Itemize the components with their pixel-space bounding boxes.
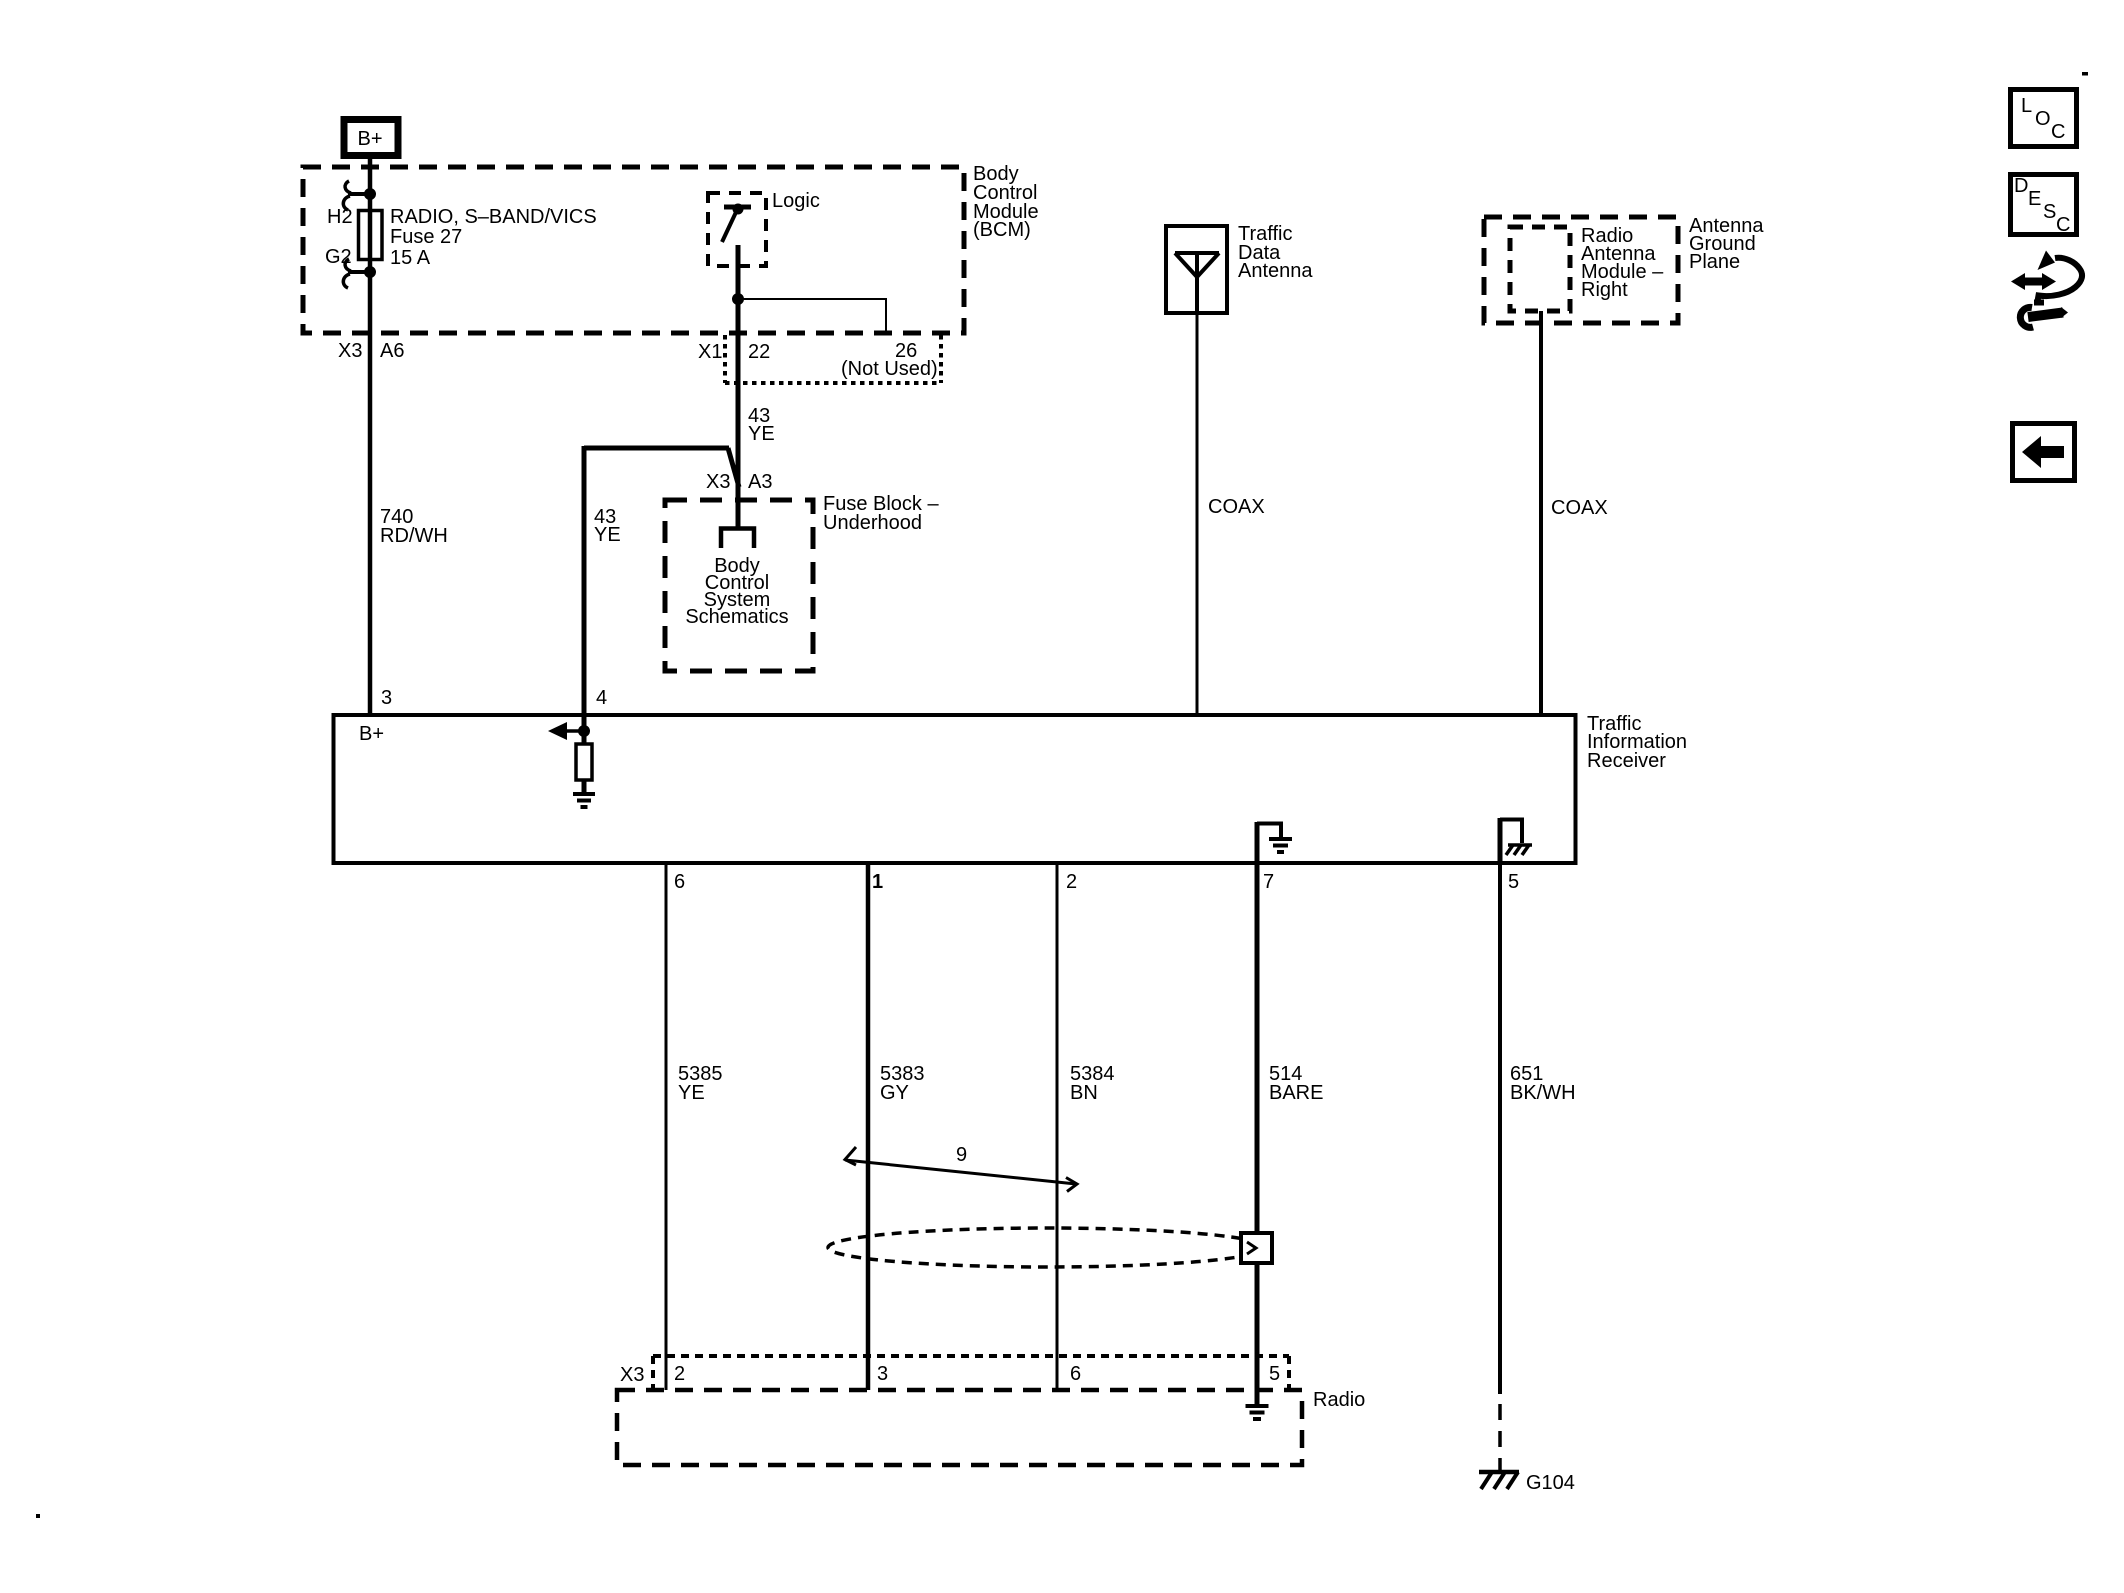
svg-text:5: 5 — [1269, 1363, 1280, 1385]
wire B+ feed — [368, 159, 373, 714]
svg-text:Antenna: Antenna — [1238, 260, 1313, 282]
shield connection arrow — [1247, 1242, 1256, 1254]
svg-text:22: 22 — [748, 341, 770, 363]
svg-text:RADIO, S–BAND/VICS: RADIO, S–BAND/VICS — [390, 206, 597, 228]
svg-text:15 A: 15 A — [390, 247, 431, 269]
svg-text:D: D — [2014, 175, 2028, 197]
wire 514 BARE — [1255, 863, 1260, 1404]
svg-text:BN: BN — [1070, 1082, 1098, 1104]
svg-text:6: 6 — [1070, 1363, 1081, 1385]
twisted pair symbol 9 — [845, 1147, 1077, 1192]
svg-text:A3: A3 — [748, 471, 772, 493]
fuse block underhood box — [665, 500, 813, 671]
svg-text:BK/WH: BK/WH — [1510, 1082, 1576, 1104]
fuse value labels — [390, 206, 597, 269]
logic switch — [722, 204, 751, 242]
svg-text:X3: X3 — [338, 340, 362, 362]
ground G104 — [1479, 1472, 1519, 1489]
connector clip H2 — [343, 181, 375, 210]
svg-text:(Not Used): (Not Used) — [841, 358, 938, 380]
svg-text:6: 6 — [674, 871, 685, 893]
wire 5385 YE — [665, 863, 668, 1390]
wire 43 YE label upper — [748, 405, 775, 445]
svg-text:E: E — [2028, 188, 2041, 210]
radio connector X3 strip — [653, 1356, 1289, 1390]
wire 651 BK/WH — [1498, 863, 1502, 1394]
svg-text:RD/WH: RD/WH — [380, 525, 448, 547]
svg-text:H2: H2 — [327, 206, 353, 228]
svg-text:4: 4 — [596, 687, 607, 709]
internal resistor — [576, 731, 592, 793]
icon swap-tool curved arrow — [2034, 251, 2082, 305]
page registration mark top right — [2082, 72, 2088, 76]
svg-text:Logic: Logic — [772, 190, 820, 212]
radio antenna module box — [1510, 227, 1570, 311]
internal ground at resistor — [573, 794, 595, 807]
shield ellipse — [828, 1228, 1266, 1267]
connector clip G2 — [343, 259, 375, 288]
svg-text:X3: X3 — [706, 471, 730, 493]
svg-text:3: 3 — [381, 687, 392, 709]
battery terminal B+ — [344, 120, 398, 156]
svg-text:L: L — [2021, 95, 2032, 117]
svg-text:9: 9 — [956, 1144, 967, 1166]
svg-text:3: 3 — [877, 1363, 888, 1385]
svg-text:2: 2 — [674, 1363, 685, 1385]
connector X1 pin box — [725, 335, 941, 383]
svg-text:BARE: BARE — [1269, 1082, 1323, 1104]
traffic data antenna box — [1166, 226, 1227, 313]
svg-text:(BCM): (BCM) — [973, 219, 1031, 241]
fuse F27 — [359, 211, 383, 260]
wire 5384 BN — [1056, 863, 1059, 1390]
svg-text:B+: B+ — [359, 723, 384, 745]
svg-text:A6: A6 — [380, 340, 404, 362]
svg-text:Right: Right — [1581, 279, 1628, 301]
svg-text:Plane: Plane — [1689, 251, 1740, 273]
traffic information receiver box — [334, 715, 1576, 863]
svg-text:GY: GY — [880, 1082, 909, 1104]
fuse block label — [823, 493, 939, 534]
svg-text:G2: G2 — [325, 246, 352, 268]
svg-text:COAX: COAX — [1551, 497, 1608, 519]
body control system schematics label — [685, 555, 788, 628]
svg-text:C: C — [2051, 121, 2065, 143]
traffic data antenna label — [1238, 223, 1313, 282]
svg-text:YE: YE — [678, 1082, 705, 1104]
receiver label — [1587, 713, 1687, 772]
BCM label — [973, 163, 1039, 241]
internal ground at pin 7 — [1257, 822, 1292, 863]
svg-text:Underhood: Underhood — [823, 512, 922, 534]
terminal bracket — [721, 529, 754, 549]
shield connection box — [1241, 1233, 1272, 1263]
svg-text:Receiver: Receiver — [1587, 750, 1666, 772]
wire 740 RD/WH labels — [380, 506, 448, 547]
BCM module outline — [303, 167, 964, 333]
coax wire antenna — [1196, 313, 1199, 714]
icon back arrow box — [2013, 424, 2075, 481]
svg-text:Radio: Radio — [1313, 1389, 1365, 1411]
antenna symbol — [1175, 253, 1219, 313]
svg-text:S: S — [2043, 201, 2056, 223]
svg-text:X3: X3 — [620, 1364, 644, 1386]
svg-text:X1: X1 — [698, 341, 722, 363]
svg-text:G104: G104 — [1526, 1472, 1575, 1494]
svg-text:Fuse 27: Fuse 27 — [390, 226, 462, 248]
svg-text:1: 1 — [872, 871, 883, 893]
internal chassis ground at pin 5 — [1500, 818, 1532, 863]
svg-text:C: C — [2056, 214, 2070, 236]
svg-text:7: 7 — [1263, 871, 1274, 893]
junction node — [733, 294, 744, 305]
svg-text:5: 5 — [1508, 871, 1519, 893]
radio antenna module label — [1581, 225, 1664, 301]
svg-text:Schematics: Schematics — [685, 606, 788, 628]
icon DESC box — [2011, 175, 2077, 237]
svg-text:B+: B+ — [357, 128, 382, 150]
wire 43 YE label lower — [594, 506, 621, 546]
wire stub to pin 26 — [738, 298, 886, 335]
coax wire module — [1539, 311, 1543, 714]
radio box — [617, 1390, 1302, 1465]
wire 43 from switch — [736, 245, 741, 530]
svg-text:2: 2 — [1066, 871, 1077, 893]
wire 5383 GY — [866, 863, 871, 1390]
svg-text:O: O — [2035, 108, 2051, 130]
ground inside radio — [1246, 1406, 1269, 1419]
icon LOC box — [2011, 90, 2077, 147]
branch wire 43 YE to pin 4 — [584, 446, 739, 731]
svg-text:COAX: COAX — [1208, 496, 1265, 518]
svg-text:YE: YE — [594, 524, 621, 546]
antenna ground plane label — [1689, 215, 1764, 273]
logic switch box — [708, 193, 766, 266]
internal arrow at pin 4 — [548, 722, 590, 740]
page registration mark bottom left — [36, 1514, 40, 1518]
antenna ground plane box — [1484, 217, 1678, 323]
svg-text:YE: YE — [748, 423, 775, 445]
icon swap-tool double arrow — [2011, 273, 2056, 290]
icon swap-tool wrench — [2020, 307, 2068, 327]
